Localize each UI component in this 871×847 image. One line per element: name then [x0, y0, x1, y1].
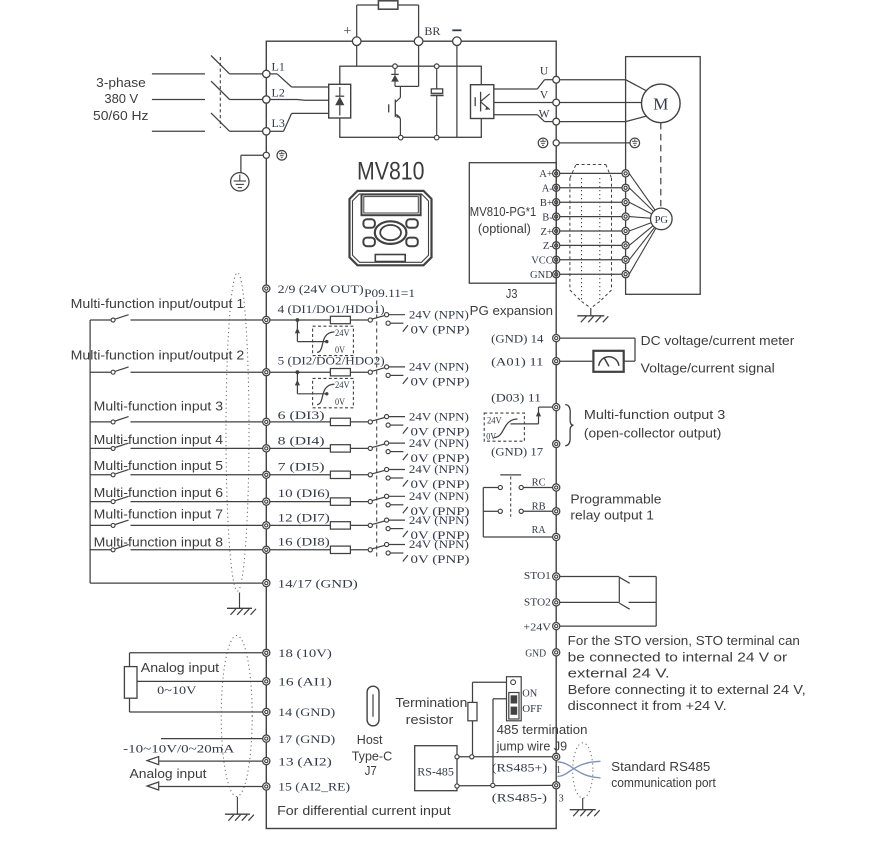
- node termination junction -: [491, 783, 495, 787]
- svg-text:DC voltage/current meter: DC voltage/current meter: [641, 333, 795, 348]
- wires PG fan-out: [629, 173, 661, 274]
- svg-text:12 (DI7): 12 (DI7): [278, 513, 330, 525]
- label communication port: [611, 775, 716, 790]
- svg-text:(RS485+): (RS485+): [492, 763, 547, 775]
- label STO note line 2: [568, 649, 788, 664]
- NPN/PNP selector DI2: [368, 365, 408, 384]
- wire breaker to terminal L2: [230, 99, 263, 101]
- label Analog input (lower): [130, 766, 207, 781]
- wire 3-phase feeder L2: [152, 99, 205, 101]
- wire DI8 from bus: [90, 549, 111, 551]
- label Multi-function input 6: [94, 485, 223, 500]
- svg-text:Multi-function input 4: Multi-function input 4: [94, 432, 223, 447]
- label J7: [365, 763, 377, 778]
- terminal DI4: [263, 445, 270, 452]
- label L3: [272, 116, 285, 130]
- terminal input ground: [263, 152, 269, 158]
- label (RS485-): [492, 792, 547, 804]
- NPN/PNP selector DI5: [368, 467, 408, 486]
- label V: [540, 89, 549, 101]
- wire DI8 resistor to selector: [350, 549, 368, 551]
- wire STO1: [560, 576, 620, 578]
- svg-text:15 (AI2_RE): 15 (AI2_RE): [278, 782, 350, 794]
- label 16 (DI8): [278, 537, 330, 549]
- label OFF: [522, 704, 542, 715]
- svg-text:L3: L3: [272, 116, 285, 130]
- operator keypad: [350, 191, 432, 265]
- wire DI1 resistor to selector: [350, 319, 368, 321]
- resistor DI6: [330, 498, 350, 505]
- label 2/9 (24V OUT): [278, 284, 364, 296]
- label 0V DO3: [486, 431, 496, 442]
- NPN/PNP selector DI7: [368, 518, 408, 537]
- DO1 24V/0V switch curve: [317, 332, 334, 353]
- switch DI7: [111, 520, 129, 527]
- svg-text:24V: 24V: [487, 415, 502, 426]
- label relay output 1: [570, 508, 654, 523]
- resistor DI2: [330, 369, 350, 376]
- wire GND inverter to motor: [560, 273, 622, 275]
- label 6 (DI3): [278, 410, 325, 422]
- wire left common bus: [89, 320, 91, 583]
- label 14 (GND): [278, 707, 335, 719]
- relay linkage dashed: [510, 477, 512, 517]
- wire DI1 terminal to resistor: [270, 319, 331, 321]
- wire input ground to earth: [241, 155, 263, 172]
- ground symbol digital shield: [227, 608, 256, 615]
- wire STO1 to bus: [629, 576, 657, 578]
- svg-text:Multi-function input/output 2: Multi-function input/output 2: [71, 348, 245, 363]
- svg-text:For the STO version, STO termi: For the STO version, STO terminal can: [568, 633, 800, 648]
- DO3 output mode box: [484, 413, 524, 441]
- svg-text:relay output 1: relay output 1: [570, 508, 654, 523]
- svg-text:BR: BR: [424, 24, 440, 38]
- svg-text:P09.11=1: P09.11=1: [364, 288, 415, 300]
- wire A- inverter to motor: [560, 187, 622, 189]
- wire breaker to terminal L3: [230, 130, 263, 132]
- wire DI4 switch to terminal: [131, 447, 263, 449]
- brake resistor BR: [378, 1, 398, 9]
- svg-text:380 V: 380 V: [104, 91, 138, 106]
- inverter IGBT module: [471, 85, 494, 119]
- terminal A- (J3 side): [553, 184, 560, 191]
- svg-text:(GND) 14: (GND) 14: [491, 333, 544, 345]
- termination resistor R-term: [468, 702, 477, 720]
- wire RS485 shield drain: [582, 798, 584, 810]
- label 15 (AI2_RE): [278, 782, 350, 794]
- svg-text:(GND) 17: (GND) 17: [491, 446, 543, 458]
- wire DI3 terminal to resistor: [270, 421, 331, 423]
- breaker blade L1: [211, 56, 230, 74]
- svg-text:0V (PNP): 0V (PNP): [411, 554, 470, 566]
- svg-text:0V (PNP): 0V (PNP): [411, 324, 470, 336]
- node termination junction +: [470, 755, 474, 759]
- relay contact RB: [498, 509, 523, 513]
- svg-text:(open-collector output): (open-collector output): [584, 426, 721, 441]
- resistor DI1: [330, 316, 350, 323]
- NPN/PNP selector DI8: [368, 542, 408, 561]
- svg-text:24V (NPN): 24V (NPN): [409, 411, 469, 423]
- terminal 16 AI1: [263, 678, 270, 685]
- label 24V (NPN) row 7: [409, 515, 469, 527]
- PG cable shield: [570, 165, 612, 309]
- svg-text:Analog input: Analog input: [130, 766, 207, 781]
- svg-text:16 (AI1): 16 (AI1): [278, 677, 332, 689]
- svg-text:be connected to internal 24 V: be connected to internal 24 V or: [568, 649, 788, 664]
- earth electrode circle (input): [231, 173, 249, 191]
- label 24V (NPN) row 6: [409, 491, 469, 503]
- wire ground to motor: [559, 142, 630, 144]
- label Termination: [395, 695, 467, 710]
- label 0V DO2: [335, 397, 345, 408]
- wire 3-phase feeder L3: [152, 130, 205, 132]
- label GND (STO): [525, 648, 546, 660]
- svg-text:0V (PNP): 0V (PNP): [411, 426, 470, 438]
- svg-text:24V: 24V: [335, 380, 350, 391]
- wire DI6 switch to terminal: [131, 501, 263, 503]
- terminal GND 17: [553, 440, 560, 447]
- wire DI5 from bus: [90, 474, 111, 476]
- label pin 3: [559, 793, 564, 804]
- svg-text:B-: B-: [542, 212, 553, 223]
- label 18 (10V): [278, 648, 332, 660]
- switch DI8: [111, 545, 129, 552]
- label STO1: [524, 570, 551, 582]
- terminal + (DC bus positive): [352, 37, 361, 46]
- wire GND14 to meter: [560, 338, 635, 361]
- svg-text:J3: J3: [506, 286, 518, 301]
- resistor DI3: [330, 418, 350, 425]
- terminal W: [553, 118, 560, 125]
- 485 termination jumper J9: [507, 677, 522, 721]
- brake chopper IGBT: [389, 86, 401, 135]
- RS485 shield ellipse: [573, 743, 593, 798]
- label J3: [506, 286, 518, 301]
- STO linkage: [618, 577, 620, 602]
- terminal B- (motor side): [622, 213, 629, 220]
- label 0V (PNP) row 3: [411, 426, 470, 438]
- label Multi-function input/output 1: [71, 296, 245, 311]
- svg-text:50/60 Hz: 50/60 Hz: [93, 108, 149, 123]
- label (GND) 14: [491, 333, 544, 345]
- label 24V (NPN) row 8: [409, 539, 469, 551]
- STO switch 2: [619, 603, 629, 609]
- terminal +24V: [553, 623, 560, 630]
- terminal output ground: [553, 140, 559, 146]
- wire DI5 terminal to resistor: [270, 474, 331, 476]
- meter M1 (voltage/current): [593, 351, 623, 372]
- svg-text:16 (DI8): 16 (DI8): [278, 537, 330, 549]
- wire L2 to rectifier: [270, 99, 329, 102]
- terminal 14 GND: [263, 708, 270, 715]
- svg-text:3-phase: 3-phase: [96, 75, 146, 90]
- label 3-phase: [96, 75, 146, 90]
- label (RS485+): [492, 763, 547, 775]
- terminal GND 14: [553, 335, 560, 342]
- label 4 (DI1/DO1/HDO1): [278, 304, 385, 316]
- terminal STO2: [553, 599, 560, 606]
- label 24V DO2: [335, 380, 350, 391]
- wire - terminal to DC bus bottom: [456, 46, 458, 138]
- svg-text:MV810: MV810: [357, 158, 425, 186]
- breaker linkage dashed: [219, 57, 221, 128]
- label A+: [539, 169, 553, 180]
- label Type-C: [352, 749, 393, 764]
- NPN/PNP selector DI3: [368, 415, 408, 434]
- DO1 output mode box: [313, 326, 354, 355]
- label -10~10V/0~20mA: [123, 741, 235, 755]
- svg-text:6 (DI3): 6 (DI3): [278, 410, 325, 422]
- label PG expansion: [470, 303, 553, 318]
- label Multi-function input/output 2: [71, 348, 245, 363]
- power stage box: [340, 66, 482, 137]
- terminal DI6: [263, 498, 270, 505]
- motor unit box: [626, 57, 701, 295]
- svg-text:W: W: [539, 109, 550, 121]
- svg-text:0V (PNP): 0V (PNP): [411, 453, 470, 465]
- svg-text:24V (NPN): 24V (NPN): [409, 309, 469, 321]
- switch DI5: [111, 470, 129, 477]
- label (optional): [478, 221, 531, 236]
- terminal A+ (J3 side): [553, 170, 560, 177]
- terminal L3: [263, 128, 270, 135]
- label 0V (PNP) row 6: [411, 506, 470, 518]
- svg-text:24V (NPN): 24V (NPN): [409, 515, 469, 527]
- svg-text:Z-: Z-: [543, 241, 553, 252]
- label 17 (GND): [278, 734, 335, 746]
- label MV810-PG*1: [470, 204, 537, 219]
- wire STO2 to bus: [629, 601, 657, 603]
- wire Z- inverter to motor: [560, 244, 622, 246]
- label 24V DO3: [487, 415, 502, 426]
- wire A+ inverter to motor: [560, 172, 622, 174]
- terminal A- (motor side): [622, 184, 629, 191]
- terminal Z- (J3 side): [553, 242, 560, 249]
- wire STO2: [560, 601, 620, 603]
- svg-text:0V: 0V: [335, 397, 345, 408]
- svg-text:M: M: [653, 95, 668, 114]
- wire B+ inverter to motor: [560, 201, 622, 203]
- label Host: [357, 732, 383, 747]
- terminal STO1: [553, 573, 560, 580]
- terminal VCC (motor side): [622, 256, 629, 263]
- wire U to motor: [560, 80, 647, 91]
- label 24V (NPN) row 5: [409, 464, 469, 476]
- wire + terminal to DC link: [356, 46, 358, 67]
- label 0V (PNP) row 5: [411, 479, 470, 491]
- wire termination bottom: [472, 721, 474, 755]
- terminal - (DC bus negative): [453, 37, 462, 46]
- svg-text:resistor: resistor: [406, 712, 454, 727]
- node capacitor top: [434, 64, 439, 69]
- svg-text:GND: GND: [530, 270, 553, 281]
- svg-text:Multi-function input 3: Multi-function input 3: [94, 398, 223, 413]
- wire analog GND: [130, 698, 263, 712]
- label Multi-function input 4: [94, 432, 223, 447]
- label RS-485: [417, 767, 454, 779]
- svg-text:18 (10V): 18 (10V): [278, 648, 332, 660]
- wire AI1 wiper: [137, 680, 263, 682]
- connector Host Type-C J7: [367, 686, 379, 726]
- PE symbol at input terminal: [277, 151, 287, 161]
- wire +24V: [560, 625, 656, 627]
- terminal DI8: [263, 546, 270, 553]
- terminal D03 11: [553, 404, 560, 411]
- wire DI7 terminal to resistor: [270, 524, 331, 526]
- wire DI1 from bus: [90, 319, 111, 321]
- label RA: [532, 524, 546, 536]
- svg-text:Multi-function input/output 1: Multi-function input/output 1: [71, 296, 245, 311]
- svg-text:L1: L1: [272, 60, 285, 74]
- wire DI6 from bus: [90, 501, 111, 503]
- wire VCC inverter to motor: [560, 259, 622, 261]
- wire jumper to RS485-: [493, 699, 507, 784]
- terminal A01 11: [553, 358, 560, 365]
- switch DI6: [111, 496, 129, 503]
- svg-text:STO2: STO2: [524, 597, 551, 609]
- breaker blade L3: [211, 113, 230, 131]
- svg-text:For differential current input: For differential current input: [277, 803, 451, 818]
- label 24V DO1: [335, 328, 350, 339]
- svg-text:485 termination: 485 termination: [497, 722, 588, 737]
- terminal Z+ (J3 side): [553, 227, 560, 234]
- wire DI5 resistor to selector: [350, 474, 368, 476]
- label STO2: [524, 597, 551, 609]
- terminal BR (brake): [414, 37, 423, 46]
- svg-text:5 (DI2/DO2/HDO2): 5 (DI2/DO2/HDO2): [278, 356, 385, 368]
- wire B- inverter to motor: [560, 216, 622, 218]
- label Multi-function input 8: [94, 535, 223, 550]
- svg-text:8 (DI4): 8 (DI4): [278, 435, 325, 447]
- label 0V (PNP) row 4: [411, 453, 470, 465]
- svg-text:Analog input: Analog input: [141, 660, 220, 675]
- brace output3: [565, 405, 573, 446]
- terminal 17 GND: [263, 735, 270, 742]
- PE symbol at motor: [630, 138, 640, 148]
- NPN/PNP selector DI1: [368, 313, 408, 332]
- svg-text:PG: PG: [655, 215, 669, 226]
- terminal 13 AI2: [263, 758, 270, 765]
- wire DI2 terminal to resistor: [270, 371, 331, 373]
- label 24V (NPN) row 2: [409, 362, 469, 374]
- wire RS485- line: [459, 784, 552, 786]
- svg-text:B+: B+: [540, 198, 553, 209]
- svg-text:0V: 0V: [486, 431, 496, 442]
- label (GND) 17: [491, 446, 543, 458]
- label (D03) 11: [491, 393, 541, 405]
- inverter main enclosure box: [266, 41, 556, 828]
- rectifier D1: [329, 84, 351, 118]
- resistor DI4: [330, 445, 350, 452]
- terminal V: [553, 99, 560, 106]
- resistor DI7: [330, 522, 350, 529]
- wire RS485+ line: [459, 756, 552, 758]
- switch DI1: [111, 315, 129, 322]
- terminal DI5: [263, 471, 270, 478]
- wire DI7 switch to terminal: [131, 524, 263, 526]
- svg-text:Standard RS485: Standard RS485: [611, 759, 710, 774]
- wire DI2 from bus: [90, 371, 111, 373]
- wire DI4 terminal to resistor: [270, 447, 331, 449]
- svg-text:VCC: VCC: [531, 256, 553, 267]
- svg-text:+: +: [343, 24, 351, 39]
- svg-text:OFF: OFF: [522, 704, 542, 715]
- node RS485+ at module: [455, 755, 459, 759]
- wire DI7 from bus: [90, 524, 111, 526]
- cable shield ellipse (analog): [221, 636, 252, 797]
- wire Z+ inverter to motor: [560, 230, 622, 232]
- label 13 (AI2): [278, 756, 332, 768]
- label 16 (AI1): [278, 677, 332, 689]
- wire RC: [483, 487, 552, 489]
- wire shield drain to earth: [590, 308, 592, 316]
- label 0V (PNP) row 8: [411, 554, 470, 566]
- svg-text:L2: L2: [272, 86, 285, 100]
- svg-text:10 (DI6): 10 (DI6): [278, 488, 330, 500]
- svg-text:RC: RC: [532, 477, 546, 489]
- svg-text:Multi-function input 7: Multi-function input 7: [94, 507, 223, 522]
- svg-text:24V: 24V: [335, 328, 350, 339]
- wire DI6 resistor to selector: [350, 501, 368, 503]
- label 24V (NPN) row 4: [409, 438, 469, 450]
- svg-text:0V: 0V: [335, 345, 345, 356]
- terminal U: [553, 76, 560, 83]
- label 0V (PNP) row 1: [411, 324, 470, 336]
- wire DI6 terminal to resistor: [270, 501, 331, 503]
- svg-text:A-: A-: [542, 184, 554, 195]
- label MV810: [357, 158, 425, 186]
- wire V output: [494, 102, 553, 104]
- label 5 (DI2/DO2/HDO2): [278, 356, 385, 368]
- relay contact RC: [498, 485, 523, 489]
- label 24V (NPN) row 3: [409, 411, 469, 423]
- terminal Z- (motor side): [622, 242, 629, 249]
- svg-text:+24V: +24V: [523, 621, 551, 633]
- terminal 18 10V: [263, 649, 270, 656]
- motor shaft dashed link: [660, 123, 662, 208]
- label Voltage/current signal: [641, 360, 775, 375]
- terminal RA: [553, 533, 560, 540]
- label jump wire J9: [496, 738, 567, 753]
- label B-: [542, 212, 553, 223]
- label 380 V: [104, 91, 138, 106]
- PE symbol at output: [538, 138, 548, 148]
- twisted pair crossover: [558, 761, 601, 778]
- svg-text:disconnect it from +24 V.: disconnect it from +24 V.: [568, 698, 727, 713]
- label P09.11=1: [364, 288, 415, 300]
- svg-text:1: 1: [556, 765, 561, 776]
- ground symbol PG shield: [577, 316, 608, 323]
- label Multi-function input 5: [94, 458, 223, 473]
- terminal GND (J3 side): [553, 271, 560, 278]
- label W: [539, 109, 550, 121]
- capacitor C1 (DC link): [431, 69, 444, 136]
- label For differential current input: [277, 803, 451, 818]
- wire 17 GND stub: [161, 738, 263, 740]
- label 0V (PNP) row 7: [411, 530, 470, 542]
- DO3 24V/0V switch curve: [494, 419, 518, 438]
- resistor DI8: [330, 546, 350, 553]
- potentiometer analog: [124, 667, 137, 699]
- wire 3-phase feeder L1: [152, 73, 205, 75]
- wire V to motor: [560, 102, 642, 104]
- ground symbol analog shield: [225, 814, 254, 821]
- wire brake resistor left leg: [357, 5, 379, 37]
- chopper freewheel diode: [391, 69, 399, 87]
- svg-text:0V (PNP): 0V (PNP): [411, 479, 470, 491]
- label 14/17 (GND): [278, 578, 358, 590]
- label 0~10V: [157, 683, 197, 697]
